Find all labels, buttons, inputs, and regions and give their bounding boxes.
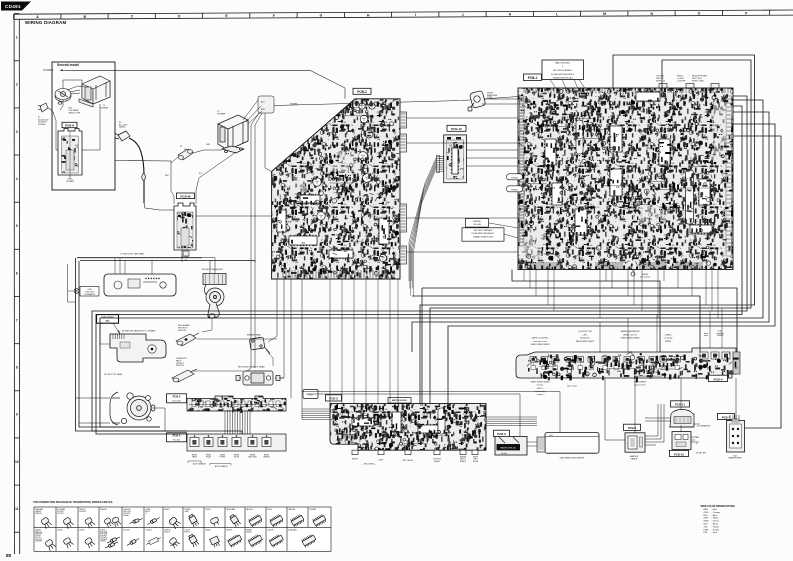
PCB-11 label: [671, 401, 690, 407]
svg-text:POB-9044: POB-9044: [100, 539, 107, 541]
svg-text:b: b: [696, 443, 697, 445]
svg-text:: Yellow: : Yellow: [712, 526, 720, 528]
svg-text:AUTO SEARCH: AUTO SEARCH: [215, 465, 229, 468]
svg-text:G: G: [320, 14, 323, 18]
svg-text:PIN: PIN: [704, 532, 708, 534]
PCB-4 label: [709, 375, 728, 381]
svg-text:STOP: STOP: [234, 457, 240, 459]
PCB-9 label: [494, 430, 510, 436]
svg-text:RECORD/ PLAYBACK: RECORD/ PLAYBACK: [553, 69, 573, 72]
head wires: [266, 350, 273, 366]
svg-text:PCB-7: PCB-7: [722, 415, 731, 419]
svg-text:EQUALIZER FREQUENCY: EQUALIZER FREQUENCY: [471, 232, 495, 235]
svg-text:+2UBS: +2UBS: [145, 509, 150, 511]
svg-text:—TAPE COUNTER—: —TAPE COUNTER—: [530, 337, 550, 340]
svg-text:MUTE: MUTE: [473, 461, 479, 463]
svg-text:PCB-3: PCB-3: [173, 395, 181, 399]
svg-text:80: 80: [6, 553, 12, 559]
lamp function illuminator: [80, 287, 99, 297]
svg-text:10: 10: [15, 460, 19, 464]
wires meter right exit: [486, 417, 537, 425]
PCB-3 label: [167, 394, 187, 403]
svg-text:TAPE SPEED: TAPE SPEED: [101, 316, 114, 319]
svg-text:PCB-10: PCB-10: [674, 452, 684, 456]
PCB-8 board: [58, 129, 82, 176]
test point TP0804: [507, 174, 523, 180]
svg-text:SHC05: SHC05: [267, 509, 272, 511]
junction lugs from T1: [258, 96, 274, 113]
svg-text:PLAY: PLAY: [206, 456, 211, 459]
svg-text:FADER: FADER: [631, 458, 638, 461]
wire mid horizontal 281: [512, 270, 660, 353]
svg-text:2SD687B: 2SD687B: [35, 541, 41, 543]
svg-text:7: 7: [16, 318, 18, 322]
svg-text:PUB-4184: PUB-4184: [123, 509, 130, 511]
svg-text:ROTATION SENSOR P.C. BOARD: ROTATION SENSOR P.C. BOARD: [122, 330, 156, 333]
svg-text:reset timer count: reset timer count: [533, 340, 547, 343]
meter level label: [388, 398, 411, 403]
svg-text:PCB-12: PCB-12: [451, 127, 462, 131]
wire right wrap 4: [96, 106, 742, 434]
svg-text:PUB-1034: PUB-1034: [100, 533, 107, 535]
svg-text:F: F: [273, 14, 275, 18]
svg-text:9: 9: [16, 413, 18, 417]
svg-text:SWITCH: SWITCH: [176, 365, 184, 367]
svg-text:RECORD/ PLAYBACK: RECORD/ PLAYBACK: [473, 229, 493, 232]
lamp symbol: [74, 289, 79, 294]
PCB-2 board: [272, 99, 407, 279]
svg-text:CLD4002: CLD4002: [145, 530, 152, 532]
svg-text:PCB-9135: PCB-9135: [123, 513, 130, 515]
wires PCB-W out: [196, 215, 272, 217]
svg-text:5: 5: [16, 224, 18, 228]
svg-text:SW801 SW802 SW803: SW801 SW802 SW803: [531, 381, 550, 383]
connector POWER small: [183, 251, 189, 256]
connector J501: [303, 390, 318, 399]
PCB-6 board master fader: [625, 433, 645, 452]
svg-text:J: J: [462, 13, 464, 17]
PCB-1 bottom drops: [524, 270, 718, 319]
svg-text:: Green: : Green: [712, 520, 720, 523]
wire AC cord to PCB-W: [144, 203, 174, 210]
svg-text:2SC2240: 2SC2240: [57, 513, 64, 515]
svg-text:PCB-6: PCB-6: [628, 426, 637, 430]
svg-text:tape counter: tape counter: [567, 385, 577, 388]
svg-text:1SS870: 1SS870: [100, 530, 106, 532]
svg-text:+JNM: +JNM: [184, 511, 189, 513]
wire bundle PCB-3 to PCB-5: [225, 411, 250, 434]
svg-text:PCB-7030: PCB-7030: [100, 531, 107, 533]
wires T1/fuse to PCB-W: [193, 150, 222, 153]
svg-text:LEFT: LEFT: [379, 460, 385, 462]
svg-text:PCB-W: PCB-W: [180, 194, 190, 198]
wires PCB-4 to bottom boards: [680, 378, 682, 410]
leader lines: [489, 223, 518, 228]
svg-text:PAUSE: PAUSE: [263, 456, 270, 459]
svg-text:TP0801: TP0801: [511, 189, 519, 191]
svg-text:2SK246: 2SK246: [57, 530, 63, 532]
wire mid horizontal 296: [412, 296, 700, 352]
svg-text:—NR—: —NR—: [582, 334, 588, 336]
wire right wrap 8: [733, 136, 781, 428]
wire mid horizontal 288: [422, 288, 737, 352]
svg-text:BIAS/EQUALIZATION: BIAS/EQUALIZATION: [621, 330, 640, 333]
wires PCB-2 tabs to PCB-1: [407, 117, 519, 119]
svg-text:SWITCH: SWITCH: [178, 330, 186, 332]
svg-text:REW: REW: [192, 457, 197, 459]
svg-text:PCB-4010: PCB-4010: [100, 535, 107, 537]
svg-text:RIGHT: RIGHT: [352, 459, 359, 461]
svg-text:memory: memory: [537, 385, 544, 387]
svg-text:: Red: : Red: [712, 509, 718, 511]
svg-text:play tone limit: play tone limit: [635, 384, 646, 387]
wires meter left entry: [302, 409, 330, 420]
meter board PCB-3 label: [326, 395, 342, 401]
svg-text:To PCB-2: To PCB-2: [43, 69, 54, 72]
svg-text:MDI-73: MDI-73: [145, 511, 150, 513]
svg-text:rec off play: rec off play: [664, 338, 673, 340]
svg-text:2: 2: [16, 83, 18, 87]
svg-text:ILLUMINATION: ILLUMINATION: [697, 425, 711, 428]
svg-text:PUR: PUR: [704, 529, 709, 531]
svg-text:WIRING DIAGRAM: WIRING DIAGRAM: [25, 20, 66, 25]
svg-text:POWER: POWER: [66, 181, 74, 183]
svg-text:J402: J402: [549, 435, 553, 437]
svg-text:—AUTO—: —AUTO—: [536, 387, 545, 390]
svg-text:BLU: BLU: [704, 515, 709, 517]
svg-text:PCB-1: PCB-1: [528, 76, 538, 80]
svg-text:RED: RED: [704, 509, 709, 511]
PCB-10 board: [672, 432, 691, 450]
svg-text:2SC828BB: 2SC828BB: [57, 509, 65, 511]
svg-text:GL9P102: GL9P102: [164, 530, 171, 532]
svg-text:: White: : White: [712, 517, 720, 520]
PCB-3 strip: [187, 396, 286, 411]
connector comb PCB-12 left: [437, 156, 444, 173]
svg-text:6: 6: [16, 271, 18, 275]
left loop wires: [76, 258, 243, 434]
leader lines callout: [550, 80, 556, 89]
svg-text:ILLUMINATOR: ILLUMINATOR: [84, 293, 96, 296]
svg-text:: Black: : Black: [712, 524, 719, 526]
svg-text:PCB-9: PCB-9: [497, 432, 506, 436]
svg-text:TLP-371: TLP-371: [184, 530, 190, 532]
wires PCB-12 to lower left: [409, 157, 437, 296]
svg-text:PCB181: PCB181: [184, 531, 190, 533]
potentiometer VR201: [468, 90, 486, 111]
legend table: [34, 507, 331, 551]
svg-text:WIRE COLOR ABBREVIATIONS: WIRE COLOR ABBREVIATIONS: [701, 505, 736, 508]
leader tape speed: [113, 323, 120, 334]
wire junction down to head: [247, 113, 259, 371]
wire junction to PCB-1 area: [274, 97, 518, 106]
svg-text:GRY: GRY: [704, 518, 709, 520]
svg-text:M: M: [603, 12, 606, 16]
svg-text:—TIMER—: —TIMER—: [663, 334, 673, 336]
svg-text:POWER: POWER: [100, 108, 109, 110]
svg-text:DC MOTOR, REEL: DC MOTOR, REEL: [104, 374, 124, 376]
wires VR201 to PCB-1: [484, 98, 518, 100]
svg-text:METAL CrO2 LH: METAL CrO2 LH: [623, 333, 637, 336]
svg-text:CHARACTERISTIC ADJ: CHARACTERISTIC ADJ: [473, 235, 494, 238]
svg-text:lamp: lamp: [704, 335, 708, 337]
wire junction to PCB-2 top: [265, 113, 272, 172]
PCB-2 label: [353, 88, 371, 94]
svg-text:SW806 SW809: SW806 SW809: [634, 381, 646, 383]
svg-text:HOK-7030: HOK-7030: [123, 511, 130, 513]
svg-text:REWIND: REWIND: [473, 221, 481, 223]
svg-text:SW810 SW811 SW812: SW810 SW811 SW812: [576, 341, 595, 343]
svg-text:1: 1: [16, 36, 18, 40]
callout bias level adj: [542, 60, 584, 80]
svg-text:RIGHT J2(R): RIGHT J2(R): [692, 81, 704, 83]
svg-text:METER LEVEL: METER LEVEL: [392, 400, 408, 402]
svg-text:HEADPHONES: HEADPHONES: [728, 457, 742, 460]
svg-text:PCB-8: PCB-8: [65, 123, 74, 127]
svg-text:ORG: ORG: [704, 512, 709, 514]
wire right wrap 1: [420, 55, 755, 404]
svg-text:CD491: CD491: [5, 4, 21, 9]
PCB-12 board: [444, 135, 467, 183]
svg-text:SW801 SW802 SW803: SW801 SW802 SW803: [531, 344, 550, 346]
lamp wire: [68, 290, 74, 292]
svg-text:LEVEL: LEVEL: [434, 461, 441, 463]
svg-text:ERASE HEAD: ERASE HEAD: [247, 334, 262, 337]
wire general box to PCB-W: [115, 161, 171, 164]
svg-text:ADJ: ADJ: [105, 319, 109, 322]
meter board: [330, 404, 486, 455]
svg-text:SW815: SW815: [665, 341, 671, 343]
svg-text:◎ RIGHT: ◎ RIGHT: [677, 80, 686, 83]
svg-text:PCB-11: PCB-11: [675, 403, 685, 407]
svg-text:AUTO SEARCH: AUTO SEARCH: [193, 463, 207, 466]
svg-text:PCB-4: PCB-4: [713, 377, 722, 381]
svg-text:I: I: [415, 13, 416, 17]
svg-text:SPACE: SPACE: [460, 460, 467, 463]
svg-text:MIC LEVEL: MIC LEVEL: [403, 460, 414, 462]
svg-text:RECORD: RECORD: [248, 457, 257, 459]
PCB-2 drops to meter: [330, 279, 398, 404]
PCB-3 scatter: [190, 398, 286, 413]
C.S motor capstan box: [104, 274, 176, 296]
wire right wrap 5: [100, 100, 763, 427]
svg-text:CHARACTERISTIC ADJ: CHARACTERISTIC ADJ: [552, 77, 573, 80]
svg-text:RIGHT J2: RIGHT J2: [656, 81, 666, 83]
PCB-7 board headphones: [727, 415, 745, 452]
svg-text:DOLBY NR: DOLBY NR: [696, 453, 706, 455]
svg-text:SW804 SW805 SW806: SW804 SW805 SW806: [621, 338, 640, 340]
wire To PCB-2 run: [66, 70, 345, 99]
wire plug to selector: [54, 115, 56, 128]
svg-text:2SD755⁵: 2SD755⁵: [35, 537, 41, 539]
svg-text:LT0800: LT0800: [205, 509, 210, 511]
sensor board wires: [100, 323, 110, 344]
plug P1 (general model): [38, 103, 54, 115]
PCB-4 board: [516, 348, 740, 378]
wires selector to transformer: [63, 80, 82, 89]
svg-text:PCV-0202: PCV-0202: [123, 530, 130, 532]
PCB-4 drops: [599, 322, 601, 352]
svg-text:L: L: [556, 12, 558, 16]
wire right wrap 7: [448, 124, 775, 404]
C.S motor drop wires: [114, 258, 116, 274]
svg-text:3: 3: [16, 130, 18, 134]
jack tabs: [659, 84, 719, 89]
PCB-2 bottom drops left: [268, 279, 277, 342]
PCB-5 label: [167, 433, 187, 442]
General model enclosure box: [52, 62, 115, 190]
svg-text:SELECTOR: SELECTOR: [69, 112, 81, 114]
svg-text:2SD-8013: 2SD-8013: [35, 539, 42, 541]
svg-text:EQUALIZER FREQUENCY: EQUALIZER FREQUENCY: [551, 73, 575, 76]
svg-text:11: 11: [15, 507, 19, 511]
svg-text:(60Hz): (60Hz): [119, 127, 126, 129]
wire color abbreviations: [701, 505, 736, 534]
svg-text:8: 8: [16, 366, 18, 370]
svg-text:DOLBY B*L NR: DOLBY B*L NR: [578, 331, 592, 333]
peak level meter: [537, 433, 599, 454]
transformer T2 (general model): [79, 76, 110, 107]
svg-text:tape monitor: tape monitor: [640, 276, 650, 279]
wire right wrap 6: [412, 112, 769, 352]
wire right wrap 2: [430, 60, 751, 404]
svg-text:WGB-87: WGB-87: [246, 531, 252, 533]
PCB-12 label: [447, 125, 466, 131]
PCB-9 board: [495, 436, 527, 455]
svg-text:: Blue: : Blue: [712, 515, 718, 517]
svg-text:GRN: GRN: [704, 521, 709, 523]
svg-text:4: 4: [16, 177, 18, 181]
callout rewind coil adj: [466, 219, 489, 228]
svg-text:50/60Hz: 50/60Hz: [38, 124, 45, 126]
svg-text:PCB-3: PCB-3: [329, 397, 338, 401]
svg-text:WB0704: WB0704: [226, 530, 232, 532]
wires above meter to peak/PCB-9: [302, 392, 560, 433]
wires PCB-12 to PCB-1: [467, 149, 519, 151]
svg-text:TP0804: TP0804: [511, 177, 519, 179]
PCB-8 label: [62, 122, 77, 127]
svg-text:WGBJY: WGBJY: [164, 509, 170, 511]
PCB-10 label: [670, 450, 689, 456]
svg-text:: Orange: : Orange: [712, 511, 721, 514]
svg-text:PIN CONNECTION DIAGRAM OF TRAN: PIN CONNECTION DIAGRAM OF TRANSISTORS, D…: [34, 501, 113, 504]
svg-text:BLK: BLK: [704, 524, 709, 526]
PCB-1 label: [524, 74, 542, 81]
PCB-W board: [174, 203, 196, 250]
top ruler band: [14, 10, 793, 19]
svg-text:off type filter: off type filter: [580, 337, 590, 340]
reel motor wires: [76, 397, 111, 399]
svg-text:COIL ADJ: COIL ADJ: [473, 223, 481, 226]
svg-text:PCB-2: PCB-2: [357, 90, 367, 94]
svg-text:2SC1842: 2SC1842: [57, 511, 64, 513]
PCB-4 scatter: [527, 351, 739, 382]
wires into PCB-11: [645, 417, 671, 419]
svg-text:0404 PEAK LEVEL METER: 0404 PEAK LEVEL METER: [560, 456, 585, 459]
wires T1 to junction: [243, 100, 258, 120]
RW motor wires: [209, 261, 211, 274]
svg-text:—repeat—: —repeat—: [536, 393, 545, 396]
tape speed adj label: [97, 315, 119, 324]
svg-text:POWER: POWER: [217, 113, 226, 115]
left ruler band: [14, 14, 20, 554]
PCB-11 board: [669, 410, 694, 428]
PCB-7 label: [718, 413, 735, 419]
wire right wrap 3: [92, 96, 747, 431]
svg-text:GRN/RED: GRN/RED: [290, 104, 299, 106]
svg-text:1SS876: 1SS876: [100, 541, 106, 543]
svg-text:PCB-8010: PCB-8010: [100, 537, 107, 539]
svg-text:BIAS LEVEL ADJ: BIAS LEVEL ADJ: [555, 61, 570, 64]
title tab CD491: [1, 2, 31, 11]
svg-text:WHT: WHT: [165, 175, 169, 177]
wires PCB-6 right: [645, 404, 658, 436]
svg-text:O: O: [698, 12, 701, 16]
svg-text:— REC LEVEL —: — REC LEVEL —: [361, 464, 376, 466]
PCB-1 board: [518, 88, 733, 270]
switch SW404 tape monitor: [631, 272, 635, 276]
PCB-6 label: [624, 424, 641, 430]
svg-text:General model: General model: [57, 63, 79, 67]
wire general box internals: [56, 128, 58, 150]
svg-text:2SK381: 2SK381: [79, 530, 85, 532]
voltage selector S1: [55, 89, 71, 105]
test point TP0801: [507, 186, 523, 192]
svg-text:RECORD/PLAYBACK HEAD: RECORD/PLAYBACK HEAD: [238, 366, 265, 369]
svg-text:C.S MOTOR, CAPSTAN: C.S MOTOR, CAPSTAN: [120, 253, 144, 256]
svg-text:WDB84: WDB84: [205, 530, 210, 532]
svg-text:RW MOTOR, ASSIST: RW MOTOR, ASSIST: [202, 268, 224, 271]
PCB-5 strip: [187, 434, 286, 451]
svg-text:: Pink: : Pink: [712, 532, 718, 534]
svg-text:SLB473: SLB473: [164, 531, 170, 533]
svg-text:: Purple: : Purple: [712, 528, 720, 531]
PCB-W label: [177, 193, 195, 199]
svg-text:F.FWD: F.FWD: [220, 457, 226, 459]
wires PCB-9 peak meter: [527, 441, 537, 443]
